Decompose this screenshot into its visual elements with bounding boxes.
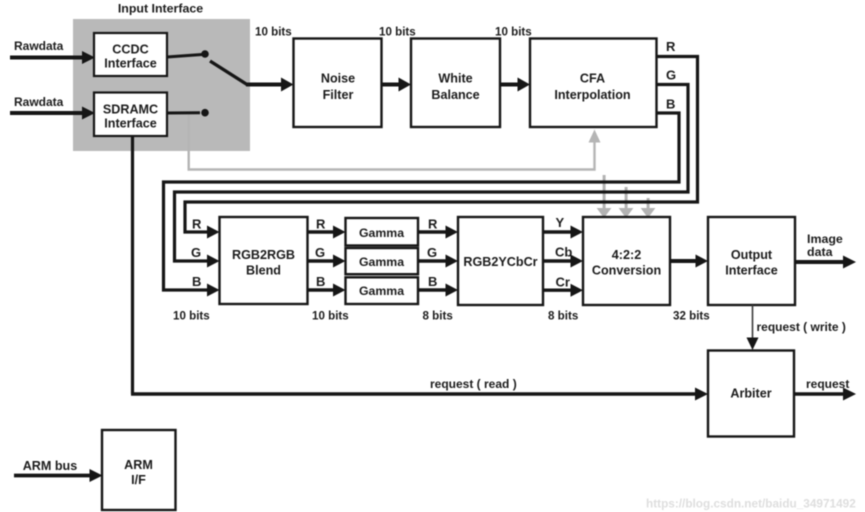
wire Gamma2 to RGB2YCbCr	[418, 255, 458, 268]
svg-text:https://blog.csdn.net/baidu_34: https://blog.csdn.net/baidu_34971492	[646, 497, 856, 511]
block SDRAMC Interface	[94, 93, 167, 137]
block ARM I/F	[102, 430, 176, 510]
svg-text:R: R	[428, 217, 438, 232]
svg-text:Interface: Interface	[725, 264, 778, 278]
svg-text:Interpolation: Interpolation	[554, 88, 630, 102]
block Arbiter	[708, 351, 794, 437]
gray wire from SDRAMC line to CFA bottom	[189, 114, 595, 170]
svg-text:ARM: ARM	[124, 458, 153, 472]
svg-text:8 bits: 8 bits	[548, 310, 578, 323]
svg-text:RGB2YCbCr: RGB2YCbCr	[463, 255, 537, 269]
wire B wrap (CFA to Blend B input)	[164, 113, 680, 290]
wire Blend G to Gamma2	[308, 255, 346, 268]
wire 4:2:2 to Output Interface	[670, 255, 708, 268]
svg-text:data: data	[807, 245, 833, 259]
svg-text:CCDC: CCDC	[112, 43, 148, 57]
svg-text:White: White	[438, 72, 472, 86]
svg-text:32 bits: 32 bits	[673, 310, 710, 323]
svg-text:G: G	[427, 245, 437, 260]
svg-text:Balance: Balance	[431, 88, 479, 102]
wire YCbCr Y to 4:2:2	[543, 226, 583, 239]
wire SDRAMC down to request read	[131, 137, 134, 394]
wire White Balance to CFA	[500, 78, 530, 92]
block Noise Filter	[294, 39, 382, 128]
svg-text:Gamma: Gamma	[359, 226, 404, 240]
svg-text:Y: Y	[556, 215, 565, 230]
block Output Interface	[708, 217, 795, 305]
wire Blend R to Gamma1	[308, 226, 346, 239]
gray arrow 3 into 4:2:2	[641, 198, 656, 218]
wire request read to Arbiter	[131, 388, 708, 401]
svg-text:G: G	[191, 245, 201, 260]
block Gamma 1	[346, 218, 419, 246]
svg-text:Cb: Cb	[555, 245, 572, 260]
wire switch to Noise Filter	[246, 78, 294, 92]
svg-text:Interface: Interface	[104, 57, 157, 71]
block White Balance	[411, 39, 500, 128]
wire Blend B to Gamma3	[308, 284, 346, 297]
wire Arbiter to request out	[794, 388, 856, 401]
svg-text:10 bits: 10 bits	[312, 310, 349, 323]
wire G wrap (CFA to Blend G input)	[175, 85, 689, 262]
block Gamma 3	[346, 277, 419, 304]
arrow Rawdata into CCDC	[10, 51, 95, 64]
wire Noise Filter to White Balance	[382, 78, 412, 92]
svg-text:request ( read ): request ( read )	[430, 377, 517, 391]
svg-text:Blend: Blend	[246, 264, 281, 278]
wire ARM bus into ARM I/F	[14, 469, 103, 482]
gray arrow 1 into 4:2:2	[597, 175, 612, 218]
svg-text:Arbiter: Arbiter	[730, 387, 771, 401]
svg-text:Interface: Interface	[104, 116, 157, 130]
svg-text:Gamma: Gamma	[359, 255, 404, 269]
svg-text:Cr: Cr	[556, 275, 570, 290]
arrowhead G into Blend	[207, 255, 220, 268]
wire SDRAMC to node	[167, 111, 200, 114]
block CCDC Interface	[94, 33, 167, 76]
svg-text:Input Interface: Input Interface	[118, 1, 203, 15]
svg-text:B: B	[666, 96, 675, 111]
wire YCbCr Cb to 4:2:2	[543, 255, 583, 268]
arrowhead B into Blend	[207, 284, 220, 297]
svg-text:RGB2RGB: RGB2RGB	[232, 248, 295, 262]
svg-text:ARM bus: ARM bus	[23, 459, 78, 473]
svg-text:Filter: Filter	[323, 88, 354, 102]
svg-text:request: request	[806, 377, 849, 391]
svg-text:R: R	[666, 39, 676, 54]
svg-text:Conversion: Conversion	[592, 264, 661, 278]
svg-text:request ( write ): request ( write )	[757, 320, 846, 334]
switch node dot (SDRAMC)	[201, 109, 209, 117]
svg-text:10 bits: 10 bits	[255, 26, 292, 39]
block RGB2YCbCr	[458, 217, 543, 305]
block CFA Interpolation	[530, 39, 657, 128]
svg-text:8 bits: 8 bits	[423, 310, 453, 323]
svg-text:B: B	[316, 274, 325, 289]
svg-text:R: R	[316, 217, 326, 232]
svg-text:Rawdata: Rawdata	[14, 95, 64, 109]
switch lever wire	[210, 61, 247, 85]
svg-text:B: B	[192, 274, 201, 289]
svg-text:G: G	[315, 245, 325, 260]
gray arrow 2 into 4:2:2	[619, 187, 634, 218]
svg-text:I/F: I/F	[131, 473, 146, 487]
svg-text:SDRAMC: SDRAMC	[103, 103, 158, 117]
svg-text:B: B	[428, 274, 437, 289]
input interface gray region	[73, 19, 250, 151]
svg-text:10 bits: 10 bits	[173, 310, 210, 323]
svg-text:10 bits: 10 bits	[379, 26, 416, 39]
svg-text:G: G	[666, 67, 676, 82]
gray arrowhead into CFA bottom	[589, 130, 601, 143]
block 4:2:2 Conversion	[583, 217, 670, 305]
block RGB2RGB Blend	[220, 217, 308, 304]
wire Output Interface to Image data	[795, 256, 856, 269]
svg-text:CFA: CFA	[580, 72, 605, 86]
wire Gamma3 to RGB2YCbCr	[418, 284, 458, 297]
svg-text:4:2:2: 4:2:2	[612, 248, 641, 262]
block Gamma 2	[346, 248, 419, 274]
arrow Rawdata into SDRAMC	[10, 107, 95, 120]
wire YCbCr Cr to 4:2:2	[543, 284, 583, 297]
switch node dot (CCDC)	[201, 50, 209, 58]
arrowhead request write	[747, 338, 759, 351]
svg-text:Rawdata: Rawdata	[14, 39, 64, 53]
wire CCDC to switch node	[167, 55, 202, 58]
svg-text:R: R	[192, 217, 202, 232]
arrowhead R into Blend	[207, 226, 220, 239]
svg-text:10 bits: 10 bits	[495, 26, 532, 39]
svg-text:Output: Output	[731, 248, 773, 262]
wire Gamma1 to RGB2YCbCr	[418, 226, 458, 239]
wire request write (Output Interface to Arbiter)	[752, 305, 754, 340]
svg-text:Noise: Noise	[321, 72, 355, 86]
wire R wrap (CFA to Blend R input)	[185, 57, 698, 233]
svg-text:Gamma: Gamma	[359, 284, 404, 298]
